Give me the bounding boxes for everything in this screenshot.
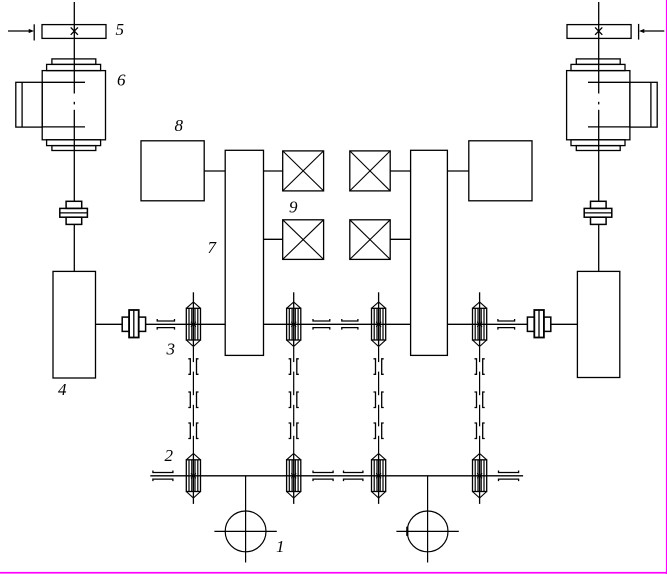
svg-text:6: 6 (117, 70, 126, 89)
cardan shaft col2 (289, 347, 299, 453)
wire unit8-gearbox right (447, 170, 468, 172)
coupling left vertical (60, 201, 88, 224)
wire main shaft seg2 (146, 323, 226, 325)
sliding joint lower 1 (153, 471, 173, 482)
wire left shaft to frame (73, 224, 75, 271)
wire bottom shaft (150, 475, 523, 477)
motor right (567, 59, 630, 151)
svg-text:8: 8 (175, 116, 184, 135)
unit 8 right (469, 141, 532, 201)
wire left motor shaft (73, 151, 75, 202)
sliding joint upper 4 (498, 319, 515, 330)
unit 8 left (141, 141, 204, 201)
magenta border bottom (0, 572, 667, 574)
wire lower spindle axis col3 (378, 454, 380, 499)
sliding joint upper 3 (342, 319, 358, 330)
roller upper 4 (473, 302, 487, 347)
wire gearbox-clutch br (390, 238, 410, 240)
cardan shaft col4 (475, 347, 485, 453)
clutch 9 top-right (350, 151, 390, 191)
cardan shaft col3 (374, 347, 384, 453)
coupling right vertical (584, 201, 612, 224)
wheel 1 left (214, 476, 276, 563)
sliding joint lower 3 (344, 471, 363, 482)
wire gearbox-clutch tr (390, 170, 410, 172)
wire main shaft seg3 (264, 323, 411, 325)
svg-text:1: 1 (276, 537, 285, 556)
roller lower 2 (287, 454, 301, 499)
wire lower stub col3 (378, 498, 380, 504)
wire gearbox-clutch bl (264, 238, 283, 240)
svg-text:9: 9 (289, 198, 298, 217)
gearbox 7 left (225, 150, 263, 355)
wire upper stub col4 (479, 292, 481, 302)
coupling right horizontal (527, 310, 550, 338)
wire upper spindle axis col3 (378, 302, 380, 346)
roller upper 1 3 (186, 302, 200, 347)
wire lower spindle axis col2 (293, 454, 295, 499)
roller lower 4 (473, 454, 487, 499)
motor terminal box right (588, 82, 657, 127)
wire left vertical shaft top (73, 2, 75, 94)
wire right motor shaft (598, 151, 600, 202)
wire lower stub col1 (192, 498, 194, 504)
sliding joint lower 2 (313, 471, 333, 482)
wire lower spindle axis col1 (192, 454, 194, 499)
coupling left horizontal (122, 310, 145, 338)
fan left 5 (42, 25, 106, 39)
sliding joint upper 1 (157, 319, 174, 330)
wire main shaft seg4 (447, 323, 527, 325)
wire upper stub col1 (192, 292, 194, 302)
motor terminal box left (16, 82, 85, 127)
air-flow arrow right (639, 24, 665, 40)
sliding joint lower 4 (499, 471, 519, 482)
motor left 6 (42, 59, 105, 151)
roller upper 3 (372, 302, 386, 347)
gearbox right (411, 150, 448, 355)
svg-text:2: 2 (165, 446, 174, 465)
clutch 9 top-left (283, 151, 324, 191)
wire lower spindle axis col4 (479, 454, 481, 499)
wire right shaft to frame (598, 224, 600, 271)
wire lower stub col4 (479, 498, 481, 504)
wire gearbox-clutch tl (264, 170, 283, 172)
wire main shaft seg1 (96, 323, 123, 325)
wire unit8-gearbox left (204, 170, 225, 172)
roller lower 1 2 (186, 454, 200, 499)
roller lower 3 (372, 454, 386, 499)
svg-text:4: 4 (58, 380, 67, 399)
fan right (567, 25, 631, 39)
clutch 9 bottom-right (350, 220, 390, 260)
wire right vertical shaft top (598, 2, 600, 94)
wire lower stub col2 (293, 498, 295, 504)
wire upper stub col3 (378, 292, 380, 302)
roller upper 2 (287, 302, 301, 347)
frame right (577, 271, 619, 377)
wire upper spindle axis col4 (479, 302, 481, 346)
frame 4 left (53, 271, 96, 378)
wheel right (396, 476, 458, 563)
magenta border right (666, 0, 667, 574)
motor right axis dash-dot (598, 102, 600, 151)
wire upper spindle axis col2 (293, 302, 295, 346)
sliding joint upper 2 (313, 319, 330, 330)
wire main shaft seg5 (551, 323, 578, 325)
svg-text:3: 3 (166, 340, 176, 359)
svg-text:5: 5 (116, 20, 125, 39)
wire upper stub col2 (293, 292, 295, 302)
air-flow arrow left (8, 24, 34, 40)
motor left axis dash-dot (73, 102, 75, 151)
wire upper spindle axis col1 (192, 302, 194, 346)
clutch 9 bottom-left (283, 220, 324, 260)
cardan shaft col1 (188, 347, 198, 453)
